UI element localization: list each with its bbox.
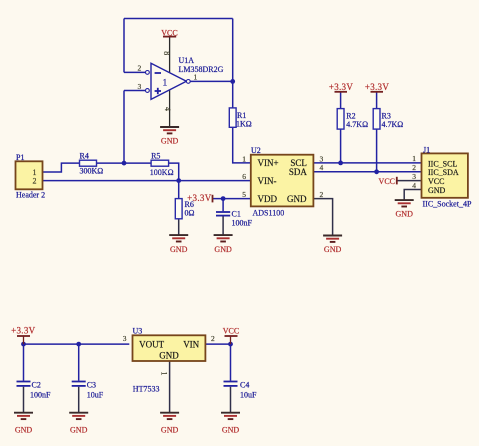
svg-text:100nF: 100nF xyxy=(30,390,51,399)
svg-text:J1: J1 xyxy=(423,146,430,155)
svg-text:R5: R5 xyxy=(151,151,160,160)
power VCC at J1 pin3 xyxy=(379,177,397,186)
svg-text:C2: C2 xyxy=(32,380,41,389)
ground under C3 xyxy=(69,413,88,435)
svg-text:GND: GND xyxy=(161,426,179,435)
power +3.3V bottom rail xyxy=(11,326,36,345)
node junction R3/SDA xyxy=(374,169,379,174)
svg-text:4.7KΩ: 4.7KΩ xyxy=(382,120,404,129)
svg-text:GND: GND xyxy=(70,426,88,435)
ground under C1 xyxy=(214,235,233,254)
wire feedback top xyxy=(124,18,233,20)
wire P1 pin2 to VIN- xyxy=(42,180,250,182)
svg-text:HT7533: HT7533 xyxy=(133,384,160,393)
wire 3.3V rail to U3 xyxy=(24,343,130,345)
svg-text:C1: C1 xyxy=(232,209,241,218)
op-amp U1A pin 4 stub xyxy=(169,90,171,127)
svg-text:2: 2 xyxy=(138,64,142,73)
resistor R3 xyxy=(373,109,403,130)
ground under U2 xyxy=(323,236,342,255)
svg-text:GND: GND xyxy=(287,194,307,204)
svg-text:VIN+: VIN+ xyxy=(258,158,279,168)
ground at J1 pin4 xyxy=(395,200,414,218)
op-amp U1A pin 8 stub xyxy=(169,37,171,73)
svg-text:GND: GND xyxy=(222,426,240,435)
resistor R2 xyxy=(337,109,368,130)
wire U2 GND pin xyxy=(313,199,332,236)
svg-text:GND: GND xyxy=(159,350,179,360)
svg-text:2: 2 xyxy=(412,163,416,172)
node junction R5/R6/VIN- xyxy=(176,178,181,183)
svg-text:2: 2 xyxy=(33,177,37,186)
power +3.3V above R3 xyxy=(365,82,390,92)
wire U3 GND pin xyxy=(169,361,171,413)
wire op-amp pin2 input xyxy=(124,71,146,73)
node junction C1/VDD xyxy=(221,196,226,201)
resistor R4 xyxy=(80,151,104,175)
svg-text:1: 1 xyxy=(242,155,246,164)
ground under op-amp xyxy=(160,127,179,146)
wire R2 top xyxy=(340,92,342,109)
svg-text:GND: GND xyxy=(15,426,33,435)
wire op-amp pin3 input xyxy=(124,90,146,92)
svg-text:100KΩ: 100KΩ xyxy=(150,168,174,177)
capacitor C2 xyxy=(17,380,52,399)
svg-text:2: 2 xyxy=(211,334,215,343)
ground under C4 xyxy=(221,413,240,435)
wire C2 top xyxy=(23,344,25,381)
node junction output/R1 xyxy=(230,79,235,84)
svg-text:VCC: VCC xyxy=(379,177,395,186)
svg-text:VOUT: VOUT xyxy=(139,340,164,350)
svg-text:VIN: VIN xyxy=(183,340,199,350)
wire J1 GND pin xyxy=(404,190,421,201)
svg-text:VIN-: VIN- xyxy=(258,176,277,186)
svg-text:GND: GND xyxy=(428,186,446,195)
svg-text:300KΩ: 300KΩ xyxy=(80,167,104,176)
power VCC bottom xyxy=(223,327,239,345)
node junction C3/rail xyxy=(76,342,81,347)
ground under C2 xyxy=(14,413,33,435)
wire feedback right vertical xyxy=(232,19,234,82)
IC U2 ADS1100 xyxy=(242,146,323,217)
wire J1 VCC pin xyxy=(397,180,421,182)
svg-text:+3.3V: +3.3V xyxy=(365,82,390,92)
svg-text:U2: U2 xyxy=(251,146,261,155)
capacitor C1 xyxy=(216,209,253,227)
wire op-amp output xyxy=(190,80,233,82)
svg-text:U1A: U1A xyxy=(179,56,195,65)
svg-text:100nF: 100nF xyxy=(232,218,253,227)
wire C1 top xyxy=(222,199,224,212)
ground under R6 xyxy=(169,235,188,254)
svg-text:10uF: 10uF xyxy=(240,390,257,399)
svg-text:4.7KΩ: 4.7KΩ xyxy=(346,120,368,129)
svg-text:4: 4 xyxy=(163,107,172,111)
svg-text:IIC_SDA: IIC_SDA xyxy=(428,168,459,177)
wire pin3 down to node xyxy=(123,91,125,164)
header P1 xyxy=(16,153,46,200)
op-amp U1A xyxy=(138,51,224,111)
svg-text:R4: R4 xyxy=(80,151,89,160)
svg-text:IIC_SCL: IIC_SCL xyxy=(428,159,457,168)
wire feedback left vertical xyxy=(123,19,125,73)
svg-text:3: 3 xyxy=(412,172,416,181)
wire output to R1 xyxy=(232,81,234,108)
svg-text:IIC_Socket_4P: IIC_Socket_4P xyxy=(423,200,472,209)
wire R1 to VIN+ xyxy=(233,127,251,163)
wire R6 to ground xyxy=(178,219,180,235)
svg-text:GND: GND xyxy=(214,245,232,254)
svg-text:1: 1 xyxy=(163,79,168,89)
svg-text:SDA: SDA xyxy=(289,167,308,177)
svg-text:4: 4 xyxy=(320,163,324,172)
svg-text:GND: GND xyxy=(324,245,342,254)
svg-text:+3.3V: +3.3V xyxy=(329,82,354,92)
svg-text:1: 1 xyxy=(160,372,169,376)
wire C3 bottom to ground xyxy=(78,387,80,413)
wire R5 right down xyxy=(169,163,179,181)
node junction 3.3V/C2 xyxy=(21,342,26,347)
svg-text:GND: GND xyxy=(161,137,179,146)
power +3.3V at C1 xyxy=(187,193,212,203)
wire U3 VIN to VCC xyxy=(205,343,230,345)
svg-text:GND: GND xyxy=(170,245,188,254)
svg-text:3: 3 xyxy=(138,82,142,91)
wire R3 bottom to SDA xyxy=(376,129,378,172)
ground under U3 xyxy=(160,413,179,435)
svg-text:6: 6 xyxy=(242,172,246,181)
connector J1 IIC_Socket_4P xyxy=(412,146,472,209)
svg-text:Header 2: Header 2 xyxy=(16,190,45,199)
wire node to R6 xyxy=(178,181,180,199)
regulator U3 HT7533 xyxy=(123,327,215,394)
svg-text:+3.3V: +3.3V xyxy=(11,326,36,336)
svg-text:GND: GND xyxy=(396,209,414,218)
capacitor C3 xyxy=(72,380,104,399)
svg-text:P1: P1 xyxy=(16,153,24,162)
resistor R5 xyxy=(150,151,174,177)
svg-text:10uF: 10uF xyxy=(87,390,104,399)
resistor R6 xyxy=(175,199,194,219)
svg-text:ADS1100: ADS1100 xyxy=(253,208,285,217)
svg-text:1KΩ: 1KΩ xyxy=(236,119,252,128)
svg-text:2: 2 xyxy=(320,190,324,199)
svg-text:LM358DR2G: LM358DR2G xyxy=(179,65,224,74)
wire C2 bottom to ground xyxy=(23,387,25,413)
svg-text:C3: C3 xyxy=(87,380,96,389)
wire +3.3V to VDD xyxy=(213,198,251,200)
svg-text:VCC: VCC xyxy=(223,327,239,336)
wire R3 top xyxy=(376,92,378,109)
wire SDA net xyxy=(313,171,421,173)
wire R4 to R5 xyxy=(97,162,152,164)
svg-text:1: 1 xyxy=(412,154,416,163)
resistor R1 xyxy=(229,108,251,128)
wire C4 top xyxy=(230,344,232,381)
capacitor C4 xyxy=(224,380,258,399)
wire SCL net xyxy=(313,162,421,164)
power +3.3V above R2 xyxy=(329,82,354,92)
svg-text:8: 8 xyxy=(162,51,171,55)
node junction pin3/R4/R5 xyxy=(122,161,127,166)
node junction VCC/C4 xyxy=(228,342,233,347)
svg-text:+3.3V: +3.3V xyxy=(187,193,212,203)
wire C3 top xyxy=(78,344,80,381)
wire P1 pin1 to R4 xyxy=(42,163,79,172)
node junction R2/SCL xyxy=(338,161,343,166)
svg-text:VDD: VDD xyxy=(258,194,278,204)
svg-text:5: 5 xyxy=(242,190,246,199)
svg-text:0Ω: 0Ω xyxy=(185,209,195,218)
svg-text:C4: C4 xyxy=(240,380,249,389)
wire R2 bottom to SCL xyxy=(340,129,342,163)
power VCC above op-amp xyxy=(161,28,177,37)
wire C4 bottom to ground xyxy=(230,387,232,413)
svg-text:VCC: VCC xyxy=(428,177,444,186)
svg-text:U3: U3 xyxy=(133,327,143,336)
wire C1 bottom to ground xyxy=(222,216,224,235)
svg-text:4: 4 xyxy=(412,181,416,190)
svg-text:3: 3 xyxy=(123,334,127,343)
